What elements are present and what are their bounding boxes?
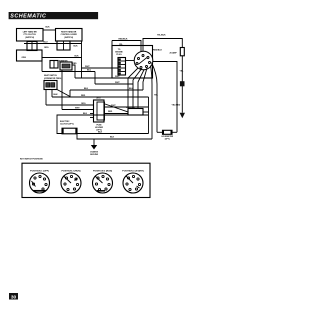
svg-text:20 AMP: 20 AMP [170,52,178,55]
title bar SCHEMATIC [9,12,99,19]
battery arrow [180,113,185,119]
svg-text:POSITION 2 (RUN): POSITION 2 (RUN) [61,171,80,173]
wire BLK row y90 [70,89,143,91]
svg-text:POSITION 4 (START): POSITION 4 (START) [122,170,144,173]
wire down right [181,56,183,113]
chassis ground [93,139,95,145]
svg-text:PLUG: PLUG [116,54,122,56]
svg-text:YEL/BLK: YEL/BLK [157,35,166,37]
diode D1 [180,81,185,86]
connector CN1 [27,42,37,51]
wire vert x95 [94,72,96,85]
svg-text:SCHEMATIC: SCHEMATIC [10,14,46,20]
svg-text:BLK: BLK [84,88,89,90]
svg-text:CHASSIS: CHASSIS [90,151,99,154]
svg-text:CLUTCH (OPT.): CLUTCH (OPT.) [60,123,74,125]
svg-text:POSITION 3 (RUN): POSITION 3 (RUN) [93,171,112,173]
wire WHT row y110 [62,109,94,111]
svg-text:(SWITCH): (SWITCH) [64,37,73,39]
svg-text:BLK: BLK [83,113,88,115]
wire from relay [72,65,75,78]
svg-text:BLK: BLK [98,131,103,133]
svg-text:WHT: WHT [75,108,80,110]
clutch coil [62,128,77,134]
wire BLK between S1 S2 [43,29,56,31]
svg-text:KEY SWITCH POSITIONS: KEY SWITCH POSITIONS [20,158,43,160]
wire RED from fuse block [104,113,128,115]
svg-text:RIGHT HAND BR: RIGHT HAND BR [61,31,77,34]
fuse F1 [180,48,184,56]
svg-text:(SWITCH): (SWITCH) [25,37,34,39]
svg-text:ORG: ORG [96,98,101,100]
svg-text:WHT: WHT [115,82,120,84]
wire from S2 down [81,41,83,78]
wire BLK bus2 [42,57,82,59]
electric clutch loop [57,115,148,134]
key switch pins [138,58,140,60]
svg-text:BLK: BLK [74,45,79,47]
switch box S1 (left hand) [17,29,44,42]
wire plug to switch [126,60,135,62]
connector CN2 [57,41,70,50]
svg-text:LEFT HAND BR: LEFT HAND BR [23,31,38,34]
svg-text:ORG: ORG [22,57,27,59]
svg-text:BLK: BLK [54,94,59,96]
svg-text:YEL/RED: YEL/RED [172,104,181,106]
wire BLK bottom2 [77,134,152,140]
wire WHT [82,67,119,69]
wires into key switch top [143,39,182,52]
svg-text:(OPERATOR PRES.): (OPERATOR PRES.) [44,77,62,80]
wires from key switch bottom [128,68,138,109]
svg-text:(OPT.): (OPT.) [165,139,171,141]
connector CN3 [50,61,58,69]
svg-text:GROUND: GROUND [90,154,99,156]
svg-text:RED/BLK: RED/BLK [153,49,162,51]
fuse block connector [94,100,105,122]
wire WHT row y78 [75,77,128,79]
switch box S3 [17,50,43,61]
key contact line [138,57,147,64]
page number 30 [9,293,18,300]
key switch U1 circle [134,51,153,70]
svg-text:ORG: ORG [81,103,86,105]
wire BLK bottom1 [77,133,149,135]
svg-text:RED: RED [81,95,86,97]
svg-text:BLK: BLK [75,55,80,57]
wire WHT row y84 [95,83,133,85]
svg-text:BLK: BLK [46,27,51,29]
svg-text:BLK: BLK [110,137,115,139]
svg-text:RED: RED [108,111,113,113]
svg-text:AMMETER: AMMETER [59,60,68,63]
wire WHT from fuse block [104,106,148,108]
relay box D [60,62,72,70]
svg-text:POSITION 1 (OFF): POSITION 1 (OFF) [30,171,49,173]
right vertical x148 [148,97,150,134]
svg-text:ORG: ORG [44,47,49,49]
wire BLU bus [24,43,82,45]
svg-text:RED/BLK: RED/BLK [119,38,128,40]
svg-text:WHT: WHT [85,66,90,68]
switch box S2 (right hand) [56,29,83,42]
wire ORG row y105 [46,104,94,106]
wire BLU long [42,71,95,73]
wire node A [41,61,43,72]
hourmeter M1 [163,130,173,134]
svg-text:BLU: BLU [87,70,92,72]
wire to ammeter right [153,62,177,133]
svg-text:30: 30 [11,294,17,300]
svg-text:SEAT SWITCH: SEAT SWITCH [44,74,58,77]
plug ladder connector [118,58,126,76]
wire RED row y97 [52,96,149,98]
key switch housing [112,46,153,79]
svg-text:BLU: BLU [44,42,49,44]
